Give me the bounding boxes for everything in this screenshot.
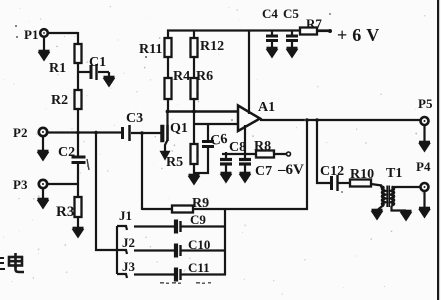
wire C11 to common (181, 273, 226, 275)
ground under R3 (72, 228, 84, 238)
ground under P1 (38, 37, 50, 61)
noise tick beside C2 (87, 159, 89, 170)
capacitor C4 (266, 30, 278, 49)
capacitor C6 (202, 124, 214, 174)
svg-text:R6: R6 (196, 69, 213, 84)
op-amp A1 (238, 106, 260, 132)
switch bank bracket (116, 226, 118, 274)
wire R11 to R4 (167, 57, 169, 79)
junction feedback (305, 118, 309, 122)
svg-text:R10: R10 (350, 167, 374, 182)
wire J1 to C9 (134, 225, 175, 227)
svg-text:C2: C2 (58, 145, 75, 160)
ground under C7 (239, 173, 251, 183)
svg-text:C7: C7 (255, 164, 272, 179)
terminal P5 (421, 117, 429, 125)
wire node line to op-amp input (166, 110, 238, 112)
wire C12 branch down (317, 120, 331, 183)
wire op-amp negative supply pin (244, 125, 246, 160)
wire J3 to C11 (134, 273, 175, 275)
wire R4 to input node (167, 99, 169, 112)
resistor R2 (75, 90, 82, 109)
svg-text:R12: R12 (200, 39, 224, 54)
ground under P4 (419, 191, 431, 218)
wire input column to J-bank (96, 133, 117, 250)
capacitor C7 (239, 160, 251, 174)
resistor R10 (350, 180, 371, 187)
switch J1 (117, 226, 127, 230)
caption character dian (9, 253, 24, 272)
svg-text:–6V: –6V (277, 162, 304, 178)
svg-text:T1: T1 (386, 166, 402, 181)
capacitor C12 (332, 175, 338, 191)
caption partial character at left edge (0, 258, 5, 269)
svg-text:R5: R5 (166, 155, 183, 170)
svg-text:J3: J3 (122, 259, 136, 274)
svg-text:C11: C11 (188, 260, 210, 275)
svg-text:C5: C5 (283, 6, 299, 21)
resistor R11 (165, 38, 172, 57)
svg-text:J1: J1 (119, 208, 132, 223)
svg-text:Q1: Q1 (170, 121, 188, 136)
resistor R12 (191, 38, 198, 57)
wire C10 to common (181, 249, 226, 251)
svg-text:C3: C3 (126, 111, 143, 126)
ground under R5 (188, 175, 200, 185)
wire R7 to +6V terminal (317, 30, 328, 32)
svg-text:C9: C9 (190, 212, 206, 227)
svg-text:P5: P5 (418, 96, 433, 111)
svg-text:C12: C12 (320, 164, 344, 179)
terminal P1 (40, 29, 48, 37)
resistor R5 (191, 144, 198, 164)
wire rail to R12 (193, 30, 195, 40)
wire J2 to C10 (134, 249, 175, 251)
open terminal dot -6V feed (287, 152, 291, 156)
svg-text:R1: R1 (49, 61, 66, 76)
junction at R4 bottom (166, 110, 170, 114)
ground under C8 (220, 173, 232, 183)
capacitor C8 (220, 152, 232, 173)
wire R8 rail (222, 153, 286, 155)
wire R10 to T1 (371, 184, 382, 186)
ground at Q1 source (160, 151, 170, 160)
svg-text:J2: J2 (122, 235, 135, 250)
svg-text:C6: C6 (209, 132, 228, 149)
ground under P2 (37, 137, 49, 161)
ground T1 secondary (400, 211, 412, 221)
wire gate node down to R9 (141, 133, 143, 210)
wire op-amp output to P5 (260, 119, 421, 121)
switch J2 (117, 250, 127, 254)
capacitor C9 (176, 220, 181, 234)
svg-text:R2: R2 (51, 93, 68, 108)
scan noise specks (15, 13, 343, 284)
wire T1 primary to ground (378, 206, 383, 210)
resistor R6 (191, 78, 198, 99)
ground under P3 (37, 189, 49, 209)
svg-text:C1: C1 (89, 55, 106, 70)
terminal P4 (421, 183, 429, 191)
node dot +6V (328, 29, 332, 33)
wire R5 node to C6 bottom (193, 172, 209, 174)
terminal P3 (39, 180, 47, 188)
capacitor C1 (91, 64, 97, 80)
wire Q1 drain up to input node line (166, 112, 168, 127)
page right border line (437, 0, 439, 300)
terminal P2 (39, 128, 47, 136)
junction at R6 bottom (192, 110, 196, 114)
capacitor C3 (123, 125, 130, 141)
svg-text:P4: P4 (416, 159, 431, 174)
svg-text:P1: P1 (24, 27, 38, 42)
svg-text:A1: A1 (258, 100, 275, 115)
wire C9 to common (181, 225, 226, 227)
capacitor C5 (286, 30, 298, 49)
svg-text:P3: P3 (13, 177, 28, 192)
ground at C1 (103, 72, 115, 87)
wire node B to C1 (78, 71, 90, 73)
wire R12 to R6 (193, 57, 195, 79)
wire T1 secondary bottom to ground (392, 206, 407, 211)
wire lower input line (194, 123, 238, 125)
wire R2 down to P2 node (77, 109, 79, 158)
wire R3 to ground (77, 217, 79, 228)
wire C12 to R10 (338, 182, 350, 184)
switch J3 (117, 274, 127, 278)
junction C12 branch (315, 118, 319, 122)
wire C2 down to P3 node (77, 162, 79, 197)
wire positive supply to op-amp (248, 30, 250, 115)
wire R6 down to R5 (193, 99, 195, 145)
ground T1 primary (371, 210, 383, 220)
transistor Q1 (161, 125, 168, 151)
svg-text:R7: R7 (306, 16, 322, 31)
resistor R7 (300, 28, 317, 35)
capacitor C11 (176, 268, 181, 282)
wire capacitor common column (224, 209, 226, 275)
wire P3 to R3 column (47, 183, 78, 185)
wire R1 to node B (77, 63, 79, 91)
ground under C5 (286, 48, 298, 58)
capacitor C10 (176, 244, 181, 258)
wire feedback down to R9 line (306, 120, 308, 210)
svg-text:C8: C8 (229, 140, 246, 155)
svg-text:R3: R3 (56, 204, 74, 220)
capacitor C2 (72, 157, 86, 163)
svg-text:R11: R11 (139, 42, 162, 57)
wire feedback line R9 (142, 208, 308, 210)
wire P2 to C3 (input line) (47, 131, 122, 133)
wire node A down to R1 (77, 32, 79, 45)
wire C3 to Q1 gate (131, 132, 161, 134)
resistor R8 (256, 151, 274, 158)
svg-text:R8: R8 (254, 139, 271, 154)
resistor R9 (172, 206, 193, 213)
svg-text:C4: C4 (262, 6, 278, 21)
svg-text:R4: R4 (173, 69, 190, 84)
wire R5 bottom node (193, 164, 195, 174)
transformer T1 (380, 186, 394, 208)
supply rail +6V (167, 29, 329, 31)
wire T1 secondary to P4 (392, 186, 422, 188)
ground under C4 (266, 48, 278, 58)
resistor R4 (165, 78, 172, 99)
resistor R3 (75, 197, 82, 217)
ground under P5 (419, 125, 431, 152)
wire rail corner to R11 (167, 30, 169, 40)
resistor R1 (75, 44, 82, 63)
svg-text:R9: R9 (192, 196, 209, 211)
wire P1 to node A (48, 32, 78, 34)
junction node feedback column (140, 131, 144, 135)
svg-text:P2: P2 (13, 125, 27, 140)
junction node at R2 column (76, 131, 80, 135)
svg-text:+6V: +6V (337, 25, 384, 45)
wire C1 to ground (98, 71, 109, 73)
junction node at J-bank column (94, 131, 98, 135)
